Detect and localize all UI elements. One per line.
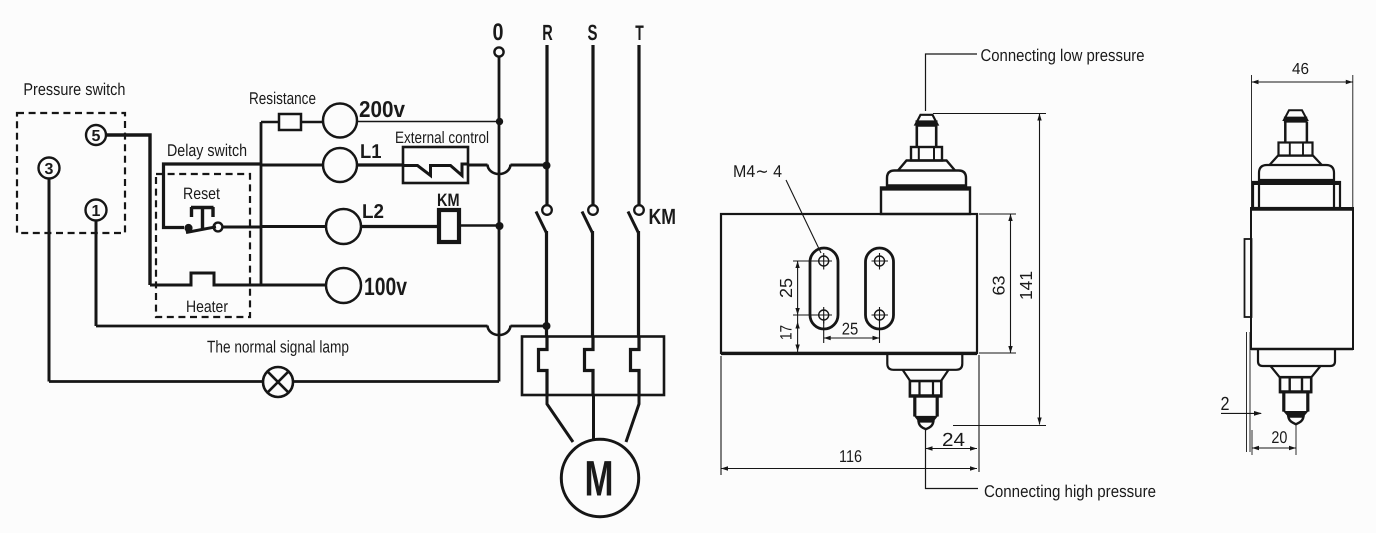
wire hop over 0 bus at terminal-1 row — [488, 326, 511, 336]
dim label M4~4 with leader — [733, 162, 821, 253]
svg-text:Connecting high pressure: Connecting high pressure — [984, 482, 1156, 501]
dim: 141 (vertical, overall) — [933, 114, 1046, 426]
top view: mounting slot right — [866, 248, 894, 329]
lamp L2 — [326, 209, 361, 244]
dim: 20 — [1252, 425, 1296, 456]
svg-text:63: 63 — [990, 276, 1009, 296]
bus R (upper) — [545, 45, 548, 205]
side view: lower block — [1258, 350, 1335, 424]
svg-text:25: 25 — [776, 278, 796, 298]
svg-text:T: T — [635, 22, 644, 45]
svg-text:External control: External control — [395, 129, 489, 147]
bus S (upper) — [591, 45, 594, 205]
wire: reset row to rail — [223, 226, 262, 229]
breaker contacts inside external control — [403, 164, 468, 176]
bus 0 — [498, 57, 501, 382]
svg-text:24: 24 — [942, 430, 965, 451]
control rail (vertical bus x=261) — [260, 122, 263, 285]
svg-text:2: 2 — [1221, 394, 1230, 415]
svg-text:5: 5 — [92, 128, 101, 145]
wire hop over 0 bus at L1 row — [488, 165, 511, 175]
junction: L2 row / 0 bus — [496, 222, 504, 230]
wire: terminal 3 down to signal-lamp row — [48, 179, 51, 382]
external control box — [403, 147, 468, 183]
knife contact R — [536, 205, 552, 233]
wire: L2 lamp to KM coil — [361, 225, 437, 228]
leader: Connecting high pressure — [926, 430, 979, 489]
svg-text:Heater: Heater — [186, 298, 228, 316]
dim: 25 (horizontal, between slots) — [824, 318, 880, 343]
svg-text:20: 20 — [1271, 428, 1287, 447]
overload element S phase — [585, 337, 594, 396]
wire: L1 lamp to external control — [357, 163, 403, 166]
lamp 200v — [323, 104, 357, 138]
dim: 46 (overall width) — [1252, 61, 1353, 208]
wire: terminal 3 row to signal lamp — [49, 380, 263, 383]
wire: KM coil to 0 bus — [461, 224, 498, 227]
svg-text:R: R — [542, 20, 553, 45]
svg-text:KM: KM — [437, 190, 460, 210]
svg-text:Resistance: Resistance — [249, 89, 316, 108]
junction: 200v row / 0 bus — [496, 118, 503, 125]
side view: upper block — [1253, 182, 1340, 208]
lamp L1 — [323, 148, 357, 182]
wire: R phase to motor — [547, 396, 573, 442]
top view: high pressure connector stack — [887, 354, 962, 430]
heater element — [150, 273, 261, 285]
dim: 25 (vertical, between screws) — [776, 261, 818, 315]
bus S (lower) — [591, 231, 594, 337]
side view: left mounting plate — [1245, 239, 1252, 317]
svg-text:S: S — [588, 20, 598, 45]
terminal 3 — [39, 158, 60, 179]
wire: terminal 1 row (hop over 0 bus) to R bus — [96, 325, 544, 328]
dim: 63 (vertical, body height) — [979, 214, 1016, 353]
supply node 0 (open terminal circle) — [494, 47, 503, 56]
svg-text:46: 46 — [1292, 61, 1309, 78]
pushbutton Reset (normally-closed) — [185, 207, 223, 233]
svg-text:The normal signal lamp: The normal signal lamp — [207, 338, 349, 357]
knife contact S — [582, 205, 598, 233]
wire: rail to L2 lamp — [261, 225, 326, 228]
leader: Connecting low pressure — [926, 54, 978, 111]
wire: terminal 1 down — [95, 221, 98, 327]
svg-text:200v: 200v — [359, 96, 405, 122]
wire: 200v lamp to 0 bus — [357, 121, 498, 123]
dim: 17 (vertical) — [778, 315, 800, 352]
side view: low pressure connector — [1259, 110, 1334, 208]
svg-text:100v: 100v — [364, 273, 407, 301]
dim: 116 — [721, 356, 977, 475]
svg-text:3: 3 — [45, 161, 54, 178]
signal lamp (crossed-circle) — [263, 367, 293, 397]
overload element T phase — [631, 337, 640, 396]
bus T (upper) — [637, 45, 640, 205]
knife contact T — [628, 205, 644, 233]
svg-text:25: 25 — [842, 320, 859, 339]
svg-text:M: M — [585, 451, 614, 507]
lamp 100v — [326, 268, 361, 303]
svg-text:141: 141 — [1016, 271, 1036, 300]
svg-text:0: 0 — [493, 19, 504, 46]
svg-text:Connecting low pressure: Connecting low pressure — [981, 46, 1145, 65]
top view: mounting slot left — [810, 248, 838, 329]
motor M — [561, 439, 638, 516]
thermal overload relay box — [522, 337, 664, 396]
bus T (lower) — [637, 231, 640, 337]
svg-text:17: 17 — [778, 325, 796, 340]
wire: S phase to motor — [592, 396, 595, 440]
terminal 1 — [86, 200, 107, 221]
bus R (lower) — [545, 231, 548, 337]
svg-text:116: 116 — [839, 447, 862, 466]
svg-text:M4∼ 4: M4∼ 4 — [733, 162, 782, 181]
junction: L1 row / R bus — [543, 162, 551, 170]
svg-text:L2: L2 — [362, 201, 384, 223]
svg-text:1: 1 — [92, 203, 101, 220]
overload element R phase — [539, 337, 548, 396]
resistor Resistance with wires — [261, 114, 323, 130]
svg-text:KM: KM — [649, 204, 677, 229]
svg-text:Delay switch: Delay switch — [167, 141, 247, 160]
dim: 2 (plate thickness) — [1221, 332, 1263, 452]
junction: terminal-1 row / R bus — [543, 322, 551, 330]
side view: body — [1251, 208, 1353, 349]
svg-text:L1: L1 — [360, 141, 382, 163]
wire: delay-switch loop (L1 row down to reset row) — [164, 164, 262, 228]
dim: 24 — [926, 355, 980, 472]
delay switch enclosure (dashed) — [156, 174, 250, 317]
terminal 5 — [86, 125, 106, 145]
svg-text:Pressure switch: Pressure switch — [23, 80, 125, 99]
wire: external control to R bus (hop over 0 bus) — [468, 164, 544, 167]
svg-text:Reset: Reset — [183, 185, 220, 203]
contactor coil KM — [439, 210, 459, 242]
wire: terminal 5 to heater row — [106, 135, 150, 285]
pressure switch enclosure (dashed) — [17, 113, 125, 233]
wire: rail to 100v lamp — [261, 284, 326, 287]
wire: rail to L1 lamp — [261, 164, 323, 167]
top view: low pressure connector stack — [881, 115, 970, 214]
wire: T phase to motor — [626, 396, 639, 442]
top view: body — [721, 214, 977, 353]
wire: signal lamp to 0 bus — [293, 380, 499, 383]
